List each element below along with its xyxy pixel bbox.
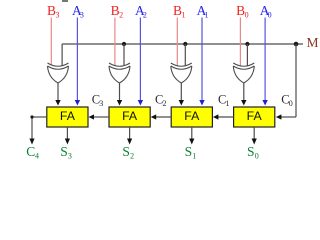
junction node M corner (294, 42, 299, 47)
wire XOR U2 output to FA2 (119, 83, 121, 101)
wire B0 input (239, 18, 241, 66)
svg-text:S: S (60, 144, 68, 159)
full adder FA4 (bit 0) (234, 107, 275, 127)
svg-text:4: 4 (35, 152, 39, 161)
wire C4 carry out (32, 116, 47, 118)
wire S2 output (129, 127, 131, 140)
junction node on M line (tap 3) (183, 42, 187, 46)
svg-text:3: 3 (99, 99, 103, 108)
svg-text:1: 1 (192, 152, 196, 161)
wire carry C2 from FA3 to FA2 (155, 116, 171, 118)
svg-text:1: 1 (226, 99, 230, 108)
wire carry C3 from FA2 to FA1 (93, 116, 109, 118)
XOR gate U3 (B1 xor M) (171, 63, 192, 83)
wire XOR U1 output to FA1 (57, 83, 59, 101)
cropped mark at top edge (62, 0, 68, 2)
svg-text:1: 1 (182, 11, 186, 20)
svg-text:2: 2 (143, 11, 147, 20)
svg-text:0: 0 (268, 11, 272, 20)
wire A2 input (139, 18, 141, 102)
svg-text:FA: FA (184, 109, 200, 123)
wire A3 input (76, 18, 78, 102)
svg-text:2: 2 (130, 152, 134, 161)
XOR gate U1 (B3 xor M) (48, 63, 69, 83)
svg-text:S: S (185, 144, 193, 159)
XOR gate U2 (B2 xor M) (109, 63, 130, 83)
svg-text:FA: FA (122, 109, 138, 123)
svg-text:2: 2 (163, 99, 167, 108)
full adder FA3 (bit 1) (171, 107, 212, 127)
junction node on M line (tap 4) (245, 42, 249, 46)
wire M tap to XOR U3 (184, 44, 186, 66)
full adder FA1 (bit 3) (47, 107, 88, 127)
XOR gate U4 (B0 xor M) (233, 63, 254, 83)
wire S1 output (191, 127, 193, 140)
wire M down to carry-in C0 (295, 44, 297, 117)
full adder FA2 (bit 2) (109, 107, 150, 127)
svg-text:3: 3 (68, 152, 72, 161)
wire S3 output (66, 127, 68, 140)
wire XOR U3 output to FA3 (180, 83, 182, 101)
svg-text:S: S (122, 144, 130, 159)
wire M tap to XOR U2 (123, 44, 125, 66)
svg-text:0: 0 (245, 11, 249, 20)
svg-text:3: 3 (56, 11, 60, 20)
wire M tap to XOR U4 (246, 44, 248, 66)
wire M tap to XOR U1 (61, 44, 63, 66)
svg-text:S: S (247, 144, 255, 159)
svg-text:FA: FA (247, 109, 263, 123)
wire S0 output (253, 127, 255, 140)
svg-text:2: 2 (119, 11, 123, 20)
wire B1 input (176, 18, 178, 66)
svg-text:3: 3 (80, 11, 84, 20)
wire carry C1 from FA4 to FA3 (217, 116, 233, 118)
wire A1 input (201, 18, 203, 102)
svg-text:0: 0 (289, 99, 293, 108)
svg-text:M: M (307, 35, 319, 50)
svg-text:FA: FA (60, 109, 76, 123)
junction node on M line (tap 2) (122, 42, 126, 46)
wire B3 input (50, 18, 52, 66)
svg-text:0: 0 (255, 152, 259, 161)
svg-text:1: 1 (205, 11, 209, 20)
wire B2 input (114, 18, 116, 66)
svg-text:C: C (26, 144, 35, 159)
wire XOR U4 output to FA4 (243, 83, 245, 101)
junction node C4 corner (30, 115, 33, 118)
wire A0 input (264, 18, 266, 102)
wire: M input horizontal line (62, 43, 303, 45)
